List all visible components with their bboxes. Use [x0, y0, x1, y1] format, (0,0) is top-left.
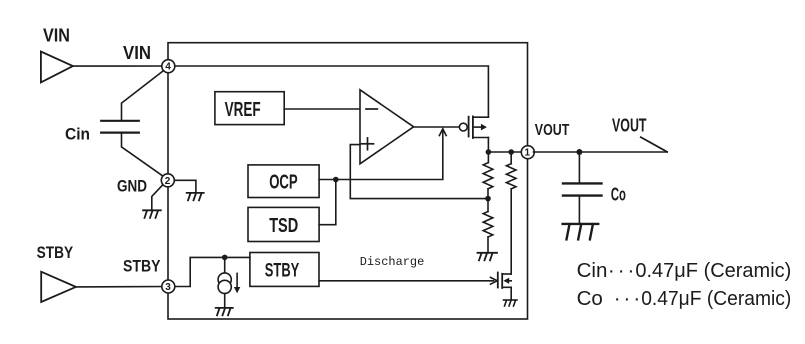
- ground (external, below pin 2): [143, 210, 161, 218]
- wire STBY block to discharge gate (arrow right): [319, 280, 493, 282]
- wire OCP output to junction: [319, 179, 336, 181]
- op-amp U1 error amplifier: [360, 90, 414, 164]
- svg-text:3: 3: [165, 282, 171, 293]
- svg-text:Co: Co: [611, 185, 626, 205]
- svg-text:1: 1: [525, 148, 531, 159]
- block VREF: [215, 92, 284, 125]
- wire pin 2 to external ground: [152, 185, 163, 211]
- svg-text:Co: Co: [577, 287, 603, 310]
- wire VREF to op-amp inverting input: [284, 108, 360, 110]
- wire pin 4 to Cin: [122, 70, 164, 120]
- wire Cin to pin 2: [122, 133, 164, 176]
- IC boundary box: [168, 43, 528, 319]
- node OCP/TSD junction: [333, 177, 339, 183]
- wire STBY input to pin 3: [76, 286, 168, 288]
- capacitor Co: [578, 152, 580, 183]
- block STBY: [250, 253, 319, 287]
- resistor R2 (divider lower): [487, 199, 489, 212]
- ground (divider): [478, 253, 498, 260]
- svg-text:VIN: VIN: [123, 43, 151, 63]
- svg-text:VOUT: VOUT: [612, 115, 647, 136]
- wire op-amp output to PMOS gate: [414, 126, 460, 128]
- svg-text:STBY: STBY: [265, 260, 300, 282]
- pin 4 (VIN): [162, 60, 175, 73]
- input terminal VIN (buffer triangle): [41, 52, 73, 83]
- transistor PMOS pass device: [459, 123, 467, 131]
- current source I1: [224, 257, 226, 273]
- node Co junction: [576, 149, 582, 155]
- wire PMOS drain to output node: [487, 138, 489, 153]
- capacitor Cin: [101, 121, 139, 133]
- node STBY junction: [222, 255, 228, 261]
- wire pin 3 to STBY block: [174, 257, 250, 286]
- output terminal VOUT (flag): [641, 137, 667, 152]
- svg-text:Discharge: Discharge: [360, 255, 425, 269]
- note Cin value: [577, 259, 792, 282]
- svg-text:0.47μF (Ceramic): 0.47μF (Ceramic): [635, 259, 791, 282]
- node output right: [508, 149, 514, 155]
- transistor discharge NMOS: [497, 273, 499, 288]
- svg-text:···: ···: [608, 259, 637, 282]
- wire TSD output to junction: [319, 180, 336, 225]
- wire gate control OCP to PMOS gate (arrow up): [336, 130, 443, 180]
- pin 3 (STBY): [162, 280, 175, 293]
- input terminal STBY (buffer triangle): [41, 272, 76, 302]
- resistor R3 (discharge path): [510, 152, 512, 164]
- svg-text:STBY: STBY: [37, 244, 74, 262]
- wire pin 2 to internal ground: [174, 180, 196, 193]
- pin 2 (GND): [161, 174, 174, 187]
- resistor R1 (divider upper): [487, 152, 489, 163]
- svg-text:GND: GND: [117, 177, 147, 196]
- wire pin 1 to VOUT terminal: [534, 151, 668, 153]
- svg-text:TSD: TSD: [269, 214, 298, 237]
- svg-text:Cin: Cin: [577, 259, 608, 282]
- svg-text:Cin: Cin: [65, 125, 90, 143]
- pin 1 (VOUT): [521, 146, 534, 159]
- ground (Co): [563, 224, 599, 240]
- svg-text:VIN: VIN: [43, 26, 70, 46]
- svg-text:VREF: VREF: [225, 98, 261, 121]
- wire output node to pin 1: [488, 151, 527, 153]
- block TSD: [248, 207, 319, 241]
- wire VIN input to pin 4: [73, 65, 168, 67]
- node feedback tap: [485, 196, 491, 202]
- note Co value: [577, 287, 792, 310]
- svg-text:STBY: STBY: [123, 258, 161, 276]
- svg-text:2: 2: [165, 176, 171, 187]
- ground (internal, right of pin 2): [187, 193, 204, 200]
- svg-text:4: 4: [165, 62, 171, 73]
- svg-text:OCP: OCP: [269, 171, 298, 194]
- wire VIN rail pin 4 to PMOS source: [174, 66, 488, 117]
- ground (discharge source): [504, 300, 518, 306]
- wire feedback tap to op-amp non-inverting input: [350, 145, 488, 199]
- svg-text:···: ···: [614, 287, 643, 310]
- svg-text:VOUT: VOUT: [535, 122, 570, 139]
- node output left: [486, 149, 492, 155]
- svg-text:0.47μF (Ceramic): 0.47μF (Ceramic): [641, 287, 791, 310]
- block OCP: [248, 165, 319, 198]
- ground (current source): [216, 308, 233, 315]
